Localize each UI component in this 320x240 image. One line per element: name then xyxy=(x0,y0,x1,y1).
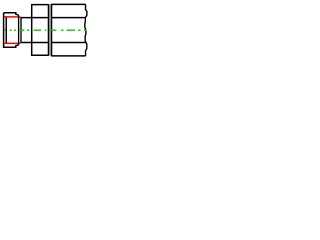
cable inner edge bottom xyxy=(20,42,85,44)
centerline dash-dot xyxy=(4,29,86,31)
cable inner edge top xyxy=(20,17,85,19)
background xyxy=(0,0,90,60)
red seal line top xyxy=(4,16,20,18)
connector front body outline xyxy=(4,13,19,48)
connector rear face vertical xyxy=(18,15,20,45)
ferrule front face vertical xyxy=(20,18,22,43)
connector inner bore vertical xyxy=(5,17,7,44)
body B left face xyxy=(50,4,52,56)
body A rectangle xyxy=(32,5,49,56)
body B outline xyxy=(51,4,85,56)
cable break zigzag right edge xyxy=(85,4,87,56)
body A right face xyxy=(48,4,50,56)
red seal line bottom xyxy=(4,42,20,44)
